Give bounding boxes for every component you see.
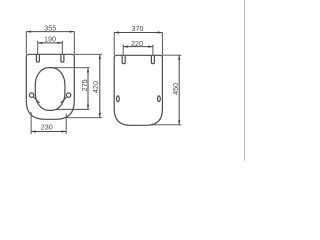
lid outer outline xyxy=(114,55,162,125)
hinge post left xyxy=(36,54,39,62)
dim 230 line xyxy=(31,131,66,133)
dim 230 ext right xyxy=(65,114,67,135)
arrow 190 left xyxy=(38,42,43,44)
bolt circle right xyxy=(66,93,70,97)
svg-text:190: 190 xyxy=(44,35,56,44)
hinge post right xyxy=(61,54,64,62)
lid hinge slot right xyxy=(151,55,154,63)
svg-text:370: 370 xyxy=(132,24,144,33)
dim 370 ext right xyxy=(161,33,163,56)
dim 220 ext left xyxy=(122,45,124,56)
arrow 370 left xyxy=(114,31,119,33)
dim 420 ext top xyxy=(74,53,102,55)
dim 370 line xyxy=(114,32,162,34)
dim 420 line xyxy=(99,54,101,117)
dim 450 ext top xyxy=(162,54,181,56)
svg-text:355: 355 xyxy=(44,23,56,32)
arrow 370 right xyxy=(158,31,163,33)
lid hinge slot left xyxy=(122,55,125,63)
arrow 450 bottom xyxy=(178,120,180,125)
arrow 220 left xyxy=(123,46,128,48)
page border line right xyxy=(244,0,246,161)
dim 450 line xyxy=(178,55,180,125)
svg-text:275: 275 xyxy=(80,79,89,91)
arrow 420 bottom xyxy=(99,113,101,118)
dim 355 line xyxy=(26,31,74,33)
dim 190 ext left xyxy=(37,41,39,55)
dim 275 line xyxy=(87,68,89,110)
arrow 420 top xyxy=(99,54,101,59)
arrow 220 right xyxy=(148,46,153,48)
dim 355 ext right xyxy=(73,32,75,55)
bolt leader left xyxy=(33,97,39,103)
lid side hole left xyxy=(117,96,120,102)
svg-text:450: 450 xyxy=(171,83,180,95)
dim 220 line xyxy=(123,46,153,48)
arrow 355 right xyxy=(70,31,75,33)
svg-text:220: 220 xyxy=(131,39,143,48)
dim 450 ext bottom xyxy=(150,124,181,126)
arrow 275 top xyxy=(87,68,89,73)
arrow 275 bottom xyxy=(87,105,89,110)
bolt circle left xyxy=(29,93,33,97)
dim 230 ext left xyxy=(30,112,32,134)
arrow 190 right xyxy=(58,42,63,44)
seat opening oval xyxy=(35,68,65,111)
dim 190 ext right xyxy=(61,41,63,55)
dim 220 ext right xyxy=(152,45,154,56)
dim 190 line xyxy=(38,42,63,44)
dim 355 ext left xyxy=(25,32,27,55)
arrow 230 right xyxy=(62,130,67,132)
arrow 355 left xyxy=(26,31,31,33)
lid side hole right xyxy=(158,96,161,102)
dim 275 ext bottom xyxy=(56,108,89,110)
arrow 230 left xyxy=(31,130,36,132)
dim 370 ext left xyxy=(113,33,115,56)
bolt leader right xyxy=(61,97,67,103)
seat outer outline xyxy=(26,54,74,119)
arrow 450 top xyxy=(178,55,180,60)
dim 275 ext top xyxy=(51,67,89,69)
svg-text:230: 230 xyxy=(41,123,53,132)
svg-text:420: 420 xyxy=(91,81,100,93)
dim 420 ext bottom xyxy=(66,117,102,119)
